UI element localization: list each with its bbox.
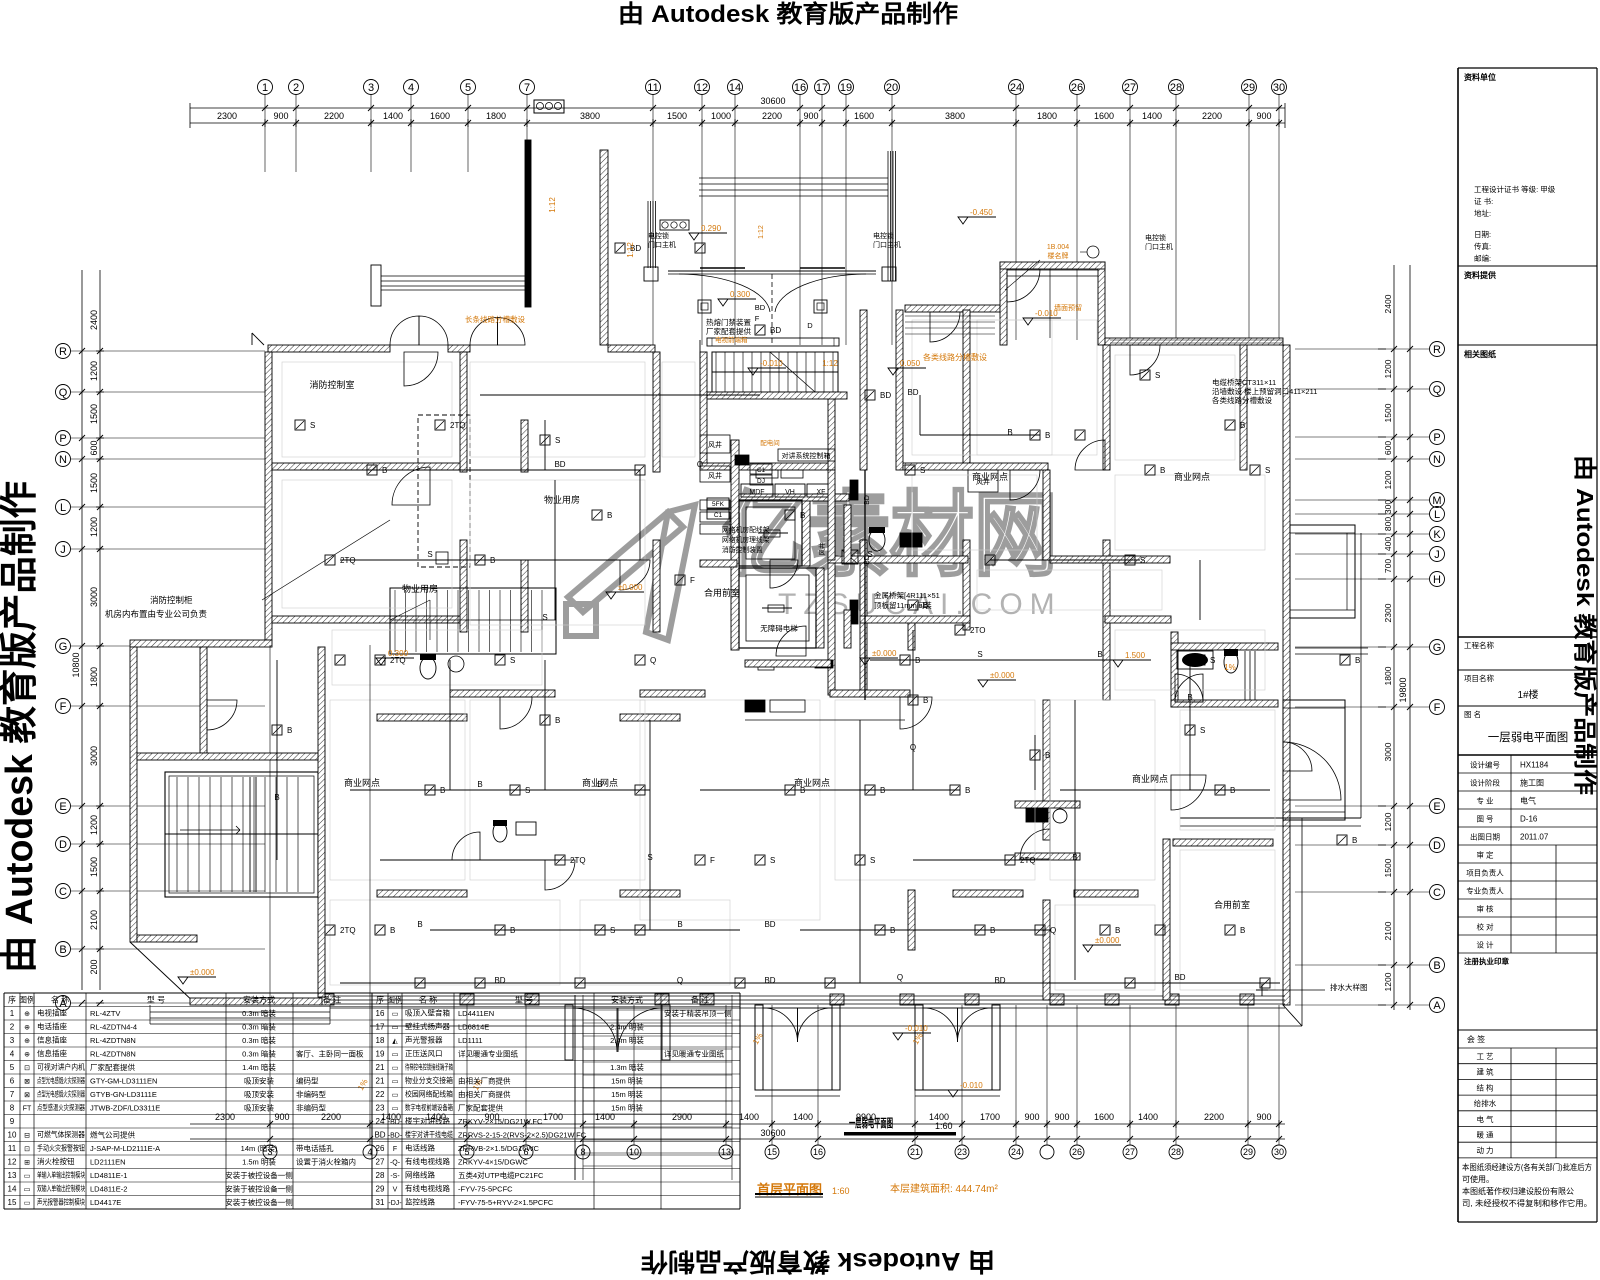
svg-text:设计阶段: 设计阶段 [1470, 778, 1500, 788]
svg-text:动 力: 动 力 [1476, 1145, 1493, 1155]
svg-text:0.300: 0.300 [730, 290, 751, 299]
svg-text:由 Autodesk 教育版产品制作: 由 Autodesk 教育版产品制作 [0, 481, 41, 973]
svg-text:审 定: 审 定 [1476, 850, 1494, 860]
svg-text:型 号: 型 号 [147, 996, 165, 1005]
svg-text:F: F [710, 856, 715, 865]
svg-text:LD1111: LD1111 [458, 1036, 483, 1045]
svg-text:13: 13 [721, 1147, 731, 1157]
svg-text:可使用。: 可使用。 [1462, 1174, 1494, 1184]
svg-text:注册执业印章: 注册执业印章 [1464, 956, 1509, 966]
svg-text:B: B [1352, 836, 1357, 845]
svg-text:商业网点: 商业网点 [972, 471, 1008, 482]
svg-text:吸顶安装: 吸顶安装 [244, 1103, 274, 1113]
svg-text:有线电视线路: 有线电视线路 [405, 1156, 450, 1166]
svg-text:J: J [60, 544, 66, 556]
svg-text:电控锁: 电控锁 [648, 231, 669, 240]
svg-text:F: F [1434, 702, 1441, 714]
svg-text:G: G [59, 641, 68, 653]
svg-text:电 气: 电 气 [1476, 1114, 1494, 1124]
svg-text:9: 9 [10, 1117, 15, 1126]
svg-text:1600: 1600 [430, 111, 450, 121]
svg-text:网络线路: 网络线路 [405, 1170, 435, 1180]
svg-text:H: H [1433, 574, 1441, 586]
svg-text:1800: 1800 [486, 111, 506, 121]
svg-text:30600: 30600 [760, 96, 785, 106]
svg-text:5FK: 5FK [712, 501, 725, 508]
svg-text:专 业: 专 业 [1476, 796, 1494, 806]
svg-text:本图纸著作权归建设股份有限公: 本图纸著作权归建设股份有限公 [1462, 1186, 1574, 1196]
svg-text:3: 3 [10, 1036, 15, 1045]
svg-text:1200: 1200 [1383, 812, 1393, 831]
svg-text:B: B [287, 726, 292, 735]
svg-text:21: 21 [910, 1147, 920, 1157]
svg-text:4: 4 [408, 82, 414, 94]
svg-text:B: B [607, 511, 612, 520]
svg-text:2: 2 [293, 82, 299, 94]
svg-text:±0.000: ±0.000 [618, 583, 643, 592]
svg-text:1400: 1400 [739, 1112, 759, 1122]
svg-text:B: B [390, 926, 395, 935]
svg-text:2200: 2200 [762, 111, 782, 121]
svg-text:排水大样图: 排水大样图 [1330, 982, 1368, 992]
svg-text:消防控制柜: 消防控制柜 [150, 595, 193, 605]
svg-text:⊕: ⊕ [24, 1025, 30, 1032]
svg-text:S: S [867, 550, 872, 559]
svg-text:点型光电感烟火灾探测器: 点型光电感烟火灾探测器 [37, 1089, 85, 1099]
svg-text:BD: BD [994, 976, 1005, 985]
svg-text:▭: ▭ [392, 1106, 399, 1113]
svg-text:J-SAP-M-LD2111E-A: J-SAP-M-LD2111E-A [90, 1144, 160, 1153]
svg-text:图例: 图例 [19, 995, 35, 1005]
svg-text:电控锁: 电控锁 [873, 231, 894, 240]
svg-text:0.3m 暗装: 0.3m 暗装 [242, 1008, 276, 1018]
svg-text:B: B [1045, 431, 1050, 440]
svg-text:20: 20 [886, 82, 898, 94]
svg-text:网络机房理线架: 网络机房理线架 [722, 535, 770, 544]
svg-text:▭: ▭ [392, 1065, 399, 1072]
svg-text:-BD-: -BD- [388, 1119, 403, 1126]
svg-text:商业网点: 商业网点 [794, 777, 830, 788]
svg-text:2TO: 2TO [970, 626, 985, 635]
svg-text:B: B [274, 793, 279, 802]
svg-text:详见暖通专业图纸: 详见暖通专业图纸 [458, 1049, 518, 1059]
svg-text:物业用房: 物业用房 [402, 583, 438, 594]
svg-text:0.3m 暗装: 0.3m 暗装 [242, 1035, 276, 1045]
svg-text:22: 22 [376, 1090, 385, 1099]
svg-text:900: 900 [273, 111, 288, 121]
svg-text:28: 28 [1171, 1147, 1181, 1157]
svg-text:K: K [1433, 529, 1441, 541]
svg-text:LD2111EN: LD2111EN [90, 1158, 126, 1167]
svg-text:12: 12 [696, 82, 708, 94]
svg-text:28: 28 [376, 1171, 385, 1180]
svg-text:无障碍电梯: 无障碍电梯 [760, 623, 798, 633]
svg-text:-0.010: -0.010 [960, 1081, 983, 1090]
svg-text:2TQ: 2TQ [450, 421, 466, 430]
svg-text:专业负责人: 专业负责人 [1466, 886, 1504, 896]
svg-text:1%: 1% [356, 1077, 370, 1092]
svg-text:-BD-: -BD- [388, 1133, 403, 1140]
svg-text:A: A [1433, 1000, 1441, 1012]
svg-text:7: 7 [524, 82, 530, 94]
svg-text:消防控制室: 消防控制室 [309, 379, 354, 390]
svg-text:信息插座: 信息插座 [37, 1048, 67, 1058]
svg-text:2TQ: 2TQ [1020, 856, 1036, 865]
svg-text:17: 17 [816, 82, 828, 94]
svg-text:2200: 2200 [1202, 111, 1222, 121]
svg-text:由 Autodesk 教育版产品制作: 由 Autodesk 教育版产品制作 [618, 0, 958, 28]
svg-text:2100: 2100 [1383, 921, 1393, 940]
svg-text:15m 明装: 15m 明装 [611, 1103, 643, 1113]
svg-text:3000: 3000 [89, 587, 99, 607]
svg-text:工程设计证书 等级: 甲级: 工程设计证书 等级: 甲级 [1474, 184, 1556, 194]
svg-text:▭: ▭ [24, 1200, 31, 1207]
svg-text:G: G [1433, 642, 1442, 654]
svg-text:11: 11 [647, 82, 658, 94]
svg-text:地址:: 地址: [1474, 208, 1491, 218]
svg-text:LD4811E-2: LD4811E-2 [90, 1185, 127, 1194]
svg-text:2TQ: 2TQ [340, 926, 356, 935]
svg-text:BD: BD [764, 976, 775, 985]
svg-text:-Q-: -Q- [390, 1160, 401, 1167]
svg-text:28: 28 [1170, 82, 1182, 94]
svg-text:证 书:: 证 书: [1474, 196, 1493, 206]
svg-text:1200: 1200 [1383, 470, 1393, 489]
svg-text:XF: XF [817, 489, 826, 496]
svg-text:C1: C1 [714, 512, 723, 519]
svg-text:L: L [60, 502, 66, 514]
svg-text:14m (暗装): 14m (暗装) [241, 1143, 278, 1153]
svg-text:5: 5 [10, 1063, 15, 1072]
svg-text:S: S [1200, 726, 1205, 735]
svg-text:D-16: D-16 [1520, 815, 1538, 824]
svg-text:B: B [1433, 960, 1440, 972]
svg-text:D: D [807, 321, 813, 330]
svg-text:安装于被控设备一侧: 安装于被控设备一侧 [225, 1184, 293, 1194]
svg-text:各类线路分槽敷设: 各类线路分槽敷设 [1212, 395, 1272, 405]
svg-text:S: S [427, 550, 432, 559]
svg-text:燃气公司提供: 燃气公司提供 [90, 1130, 135, 1140]
svg-text:1.5m 明装: 1.5m 明装 [242, 1157, 276, 1167]
svg-text:1400: 1400 [793, 1112, 813, 1122]
svg-text:6: 6 [10, 1077, 15, 1086]
svg-text:由 Autodesk 教育版产品制作: 由 Autodesk 教育版产品制作 [1572, 455, 1598, 795]
svg-text:F: F [755, 314, 760, 323]
svg-text:风井: 风井 [708, 471, 722, 480]
svg-text:壁挂式扬声器: 壁挂式扬声器 [405, 1021, 450, 1031]
svg-text:13: 13 [8, 1171, 17, 1180]
svg-text:1500: 1500 [1383, 403, 1393, 422]
svg-text:LD4411EN: LD4411EN [458, 1009, 494, 1018]
svg-text:3: 3 [368, 82, 374, 94]
svg-text:19: 19 [840, 82, 852, 94]
svg-text:本层建筑面积: 444.74m²: 本层建筑面积: 444.74m² [890, 1182, 998, 1195]
svg-text:L: L [1434, 509, 1440, 521]
svg-text:2300: 2300 [217, 111, 237, 121]
svg-text:V: V [393, 1187, 398, 1194]
svg-text:楼宇对讲线路: 楼宇对讲线路 [405, 1116, 450, 1126]
svg-text:RL-4ZDTN8N: RL-4ZDTN8N [90, 1050, 136, 1059]
svg-text:900: 900 [1054, 1112, 1069, 1122]
svg-text:P: P [1433, 432, 1440, 444]
svg-text:正压送风口: 正压送风口 [405, 1048, 443, 1058]
svg-text:编码型: 编码型 [296, 1076, 319, 1086]
svg-text:电视插座: 电视插座 [37, 1008, 67, 1018]
svg-text:900: 900 [1256, 1112, 1271, 1122]
svg-text:⊞: ⊞ [24, 1160, 30, 1167]
svg-text:B: B [677, 920, 682, 929]
svg-text:±0.000: ±0.000 [872, 649, 897, 658]
svg-text:19800: 19800 [1398, 677, 1408, 702]
svg-text:BD: BD [494, 976, 505, 985]
svg-text:电控锁: 电控锁 [1145, 233, 1166, 242]
svg-text:非编码型: 非编码型 [296, 1089, 326, 1099]
svg-text:2011.07: 2011.07 [1520, 833, 1549, 842]
svg-text:0.3m 暗装: 0.3m 暗装 [242, 1049, 276, 1059]
svg-text:15: 15 [8, 1198, 17, 1207]
svg-text:电缆桥架CT311×11: 电缆桥架CT311×11 [1212, 377, 1276, 387]
svg-text:S: S [1140, 556, 1145, 565]
svg-text:有线电视线路: 有线电视线路 [405, 1183, 450, 1193]
svg-text:2400: 2400 [1383, 294, 1393, 313]
svg-text:-FYV-75-5PCFC: -FYV-75-5PCFC [458, 1185, 513, 1194]
svg-text:2: 2 [10, 1023, 15, 1032]
svg-text:1800: 1800 [1037, 111, 1057, 121]
svg-text:1%: 1% [1224, 663, 1236, 672]
svg-text:R: R [1433, 344, 1441, 356]
svg-text:B: B [965, 786, 970, 795]
svg-text:信息插座: 信息插座 [37, 1035, 67, 1045]
svg-text:1:12: 1:12 [548, 197, 557, 213]
svg-text:1:60: 1:60 [935, 1121, 953, 1131]
svg-text:1400: 1400 [383, 111, 403, 121]
svg-text:21: 21 [376, 1063, 385, 1072]
svg-text:ZRRVS-2-15-2(RVS-2×2.5)DG21W.F: ZRRVS-2-15-2(RVS-2×2.5)DG21W.FC [458, 1131, 587, 1140]
svg-text:S: S [1155, 371, 1160, 380]
svg-text:设计编号: 设计编号 [1470, 760, 1500, 770]
svg-text:21: 21 [376, 1077, 385, 1086]
svg-text:1.500: 1.500 [1125, 651, 1146, 660]
svg-text:BD: BD [770, 326, 781, 335]
svg-text:BD: BD [907, 388, 918, 397]
svg-text:待梯控电控锁接线端子箱: 待梯控电控锁接线端子箱 [405, 1062, 453, 1072]
svg-text:B: B [1115, 926, 1120, 935]
svg-text:B: B [490, 556, 495, 565]
svg-text:1:12: 1:12 [626, 242, 635, 258]
svg-text:0.3m 暗装: 0.3m 暗装 [242, 1022, 276, 1032]
svg-text:沿墙敷设 楼上预留洞口411×211: 沿墙敷设 楼上预留洞口411×211 [1212, 386, 1317, 396]
svg-text:Q: Q [910, 743, 916, 752]
svg-text:暖 通: 暖 通 [1476, 1130, 1494, 1140]
svg-text:600: 600 [1383, 441, 1393, 455]
svg-text:2200: 2200 [321, 1112, 341, 1122]
svg-text:RL-4ZTV: RL-4ZTV [90, 1009, 120, 1018]
svg-text:29: 29 [1243, 82, 1255, 94]
svg-text:非编码型: 非编码型 [296, 1103, 326, 1113]
svg-text:700: 700 [1383, 559, 1393, 573]
svg-text:3800: 3800 [945, 111, 965, 121]
svg-text:点型感温火灾探测器: 点型感温火灾探测器 [37, 1102, 85, 1112]
svg-text:物业分支交接箱: 物业分支交接箱 [405, 1075, 453, 1085]
svg-text:合用前室: 合用前室 [704, 587, 740, 598]
svg-text:厂家配套提供: 厂家配套提供 [706, 326, 751, 336]
svg-text:◭: ◭ [392, 1038, 398, 1045]
svg-text:声光警报器: 声光警报器 [405, 1035, 443, 1045]
svg-text:声光报警器控制模块: 声光报警器控制模块 [37, 1197, 85, 1207]
svg-text:顶板留11mm间装: 顶板留11mm间装 [874, 600, 932, 610]
svg-text:网络机房配线架: 网络机房配线架 [722, 525, 770, 534]
svg-text:GTY-GM-LD3111EN: GTY-GM-LD3111EN [90, 1077, 157, 1086]
svg-text:监控线路: 监控线路 [405, 1197, 435, 1207]
svg-text:1200: 1200 [89, 361, 99, 381]
svg-text:⊕: ⊕ [24, 1038, 30, 1045]
svg-text:3800: 3800 [580, 111, 600, 121]
svg-text:S: S [770, 856, 775, 865]
svg-text:R: R [59, 346, 67, 358]
svg-text:热熔门禁装置: 热熔门禁装置 [706, 317, 751, 327]
svg-text:D: D [59, 839, 67, 851]
svg-text:ZRKYV-2×15/DG21W.FC: ZRKYV-2×15/DG21W.FC [458, 1117, 543, 1126]
svg-text:1200: 1200 [1383, 972, 1393, 991]
svg-text:24: 24 [376, 1117, 385, 1126]
svg-text:客厅、主卧同一面板: 客厅、主卧同一面板 [296, 1049, 364, 1059]
svg-text:2200: 2200 [1204, 1112, 1224, 1122]
svg-text:厂家配套提供: 厂家配套提供 [90, 1062, 135, 1072]
svg-text:1500: 1500 [89, 473, 99, 493]
svg-text:10: 10 [8, 1131, 17, 1140]
svg-text:3000: 3000 [1383, 742, 1393, 761]
svg-text:±0.000: ±0.000 [990, 671, 1015, 680]
svg-text:S: S [310, 421, 315, 430]
svg-text:墙面预留: 墙面预留 [1054, 303, 1082, 312]
svg-text:19: 19 [376, 1050, 385, 1059]
svg-text:4: 4 [10, 1050, 15, 1059]
svg-text:物业用房: 物业用房 [544, 494, 580, 505]
svg-text:C1: C1 [757, 467, 766, 474]
svg-text:电视前端箱: 电视前端箱 [715, 335, 748, 344]
svg-text:N: N [59, 454, 67, 466]
svg-text:1200: 1200 [89, 517, 99, 537]
svg-text:S: S [510, 656, 515, 665]
svg-text:长条线路分槽敷设: 长条线路分槽敷设 [465, 314, 525, 324]
svg-text:B: B [880, 786, 885, 795]
svg-text:10: 10 [629, 1147, 639, 1157]
svg-text:安装于精装吊顶一侧: 安装于精装吊顶一侧 [664, 1008, 732, 1018]
svg-text:1800: 1800 [1383, 666, 1393, 685]
svg-text:1500: 1500 [89, 404, 99, 424]
svg-text:J: J [1434, 549, 1440, 561]
svg-text:吸顶安装: 吸顶安装 [244, 1076, 274, 1086]
svg-text:金属桥架[4R111×51: 金属桥架[4R111×51 [874, 590, 940, 600]
svg-text:26: 26 [1071, 82, 1083, 94]
svg-text:图 号: 图 号 [1476, 815, 1493, 824]
svg-text:1.3m 暗装: 1.3m 暗装 [610, 1062, 644, 1072]
svg-text:1600: 1600 [1094, 1112, 1114, 1122]
svg-text:2100: 2100 [89, 910, 99, 930]
svg-text:资料提供: 资料提供 [1464, 270, 1496, 280]
svg-text:16: 16 [813, 1147, 823, 1157]
svg-text:门口主机: 门口主机 [873, 240, 901, 249]
svg-text:-0.450: -0.450 [970, 208, 993, 217]
svg-text:F: F [690, 576, 695, 585]
svg-text:B: B [1045, 751, 1050, 760]
svg-text:-DJ-: -DJ- [388, 1200, 402, 1207]
svg-text:LD4417E: LD4417E [90, 1198, 121, 1207]
svg-text:本图纸须经建设方(各有关部门)批准后方: 本图纸须经建设方(各有关部门)批准后方 [1462, 1162, 1592, 1172]
svg-text:商业网点: 商业网点 [1174, 471, 1210, 482]
svg-text:型 号: 型 号 [515, 996, 533, 1005]
svg-text:P: P [59, 433, 66, 445]
svg-text:0.050: 0.050 [900, 359, 921, 368]
svg-text:30600: 30600 [760, 1128, 785, 1138]
svg-text:2200: 2200 [324, 111, 344, 121]
svg-text:300: 300 [1383, 500, 1393, 514]
svg-text:五类4对UTP电缆PC21FC: 五类4对UTP电缆PC21FC [458, 1170, 544, 1180]
svg-text:200: 200 [89, 959, 99, 974]
svg-text:安装方式: 安装方式 [243, 995, 275, 1005]
svg-text:B: B [1187, 693, 1192, 702]
svg-text:B: B [890, 926, 895, 935]
svg-text:邮编:: 邮编: [1474, 253, 1491, 263]
svg-text:1.4m 暗装: 1.4m 暗装 [242, 1062, 276, 1072]
svg-text:24: 24 [1011, 1147, 1021, 1157]
svg-text:1400: 1400 [1142, 111, 1162, 121]
svg-text:-0.010: -0.010 [760, 359, 783, 368]
svg-text:N: N [1433, 454, 1441, 466]
svg-text:校园网络配线箱: 校园网络配线箱 [405, 1089, 453, 1099]
svg-text:图 名: 图 名 [1464, 709, 1481, 719]
svg-text:安装于被控设备一侧: 安装于被控设备一侧 [225, 1170, 293, 1180]
svg-text:B: B [1240, 926, 1245, 935]
svg-text:B: B [59, 944, 66, 956]
svg-text:26: 26 [376, 1144, 385, 1153]
svg-text:7: 7 [10, 1090, 15, 1099]
svg-text:HX1184: HX1184 [1520, 761, 1549, 770]
svg-text:2.4m 明装: 2.4m 明装 [610, 1035, 644, 1045]
svg-text:MDF: MDF [749, 489, 764, 496]
svg-text:▭: ▭ [392, 1052, 399, 1059]
svg-text:校 对: 校 对 [1476, 922, 1494, 932]
svg-text:1700: 1700 [543, 1112, 563, 1122]
svg-text:传真:: 传真: [1474, 241, 1491, 251]
svg-text:10800: 10800 [71, 652, 81, 677]
svg-text:安装方式: 安装方式 [611, 995, 643, 1005]
svg-text:司, 未经授权不得复制和移作它用。: 司, 未经授权不得复制和移作它用。 [1462, 1198, 1592, 1208]
svg-text:1600: 1600 [1094, 111, 1114, 121]
svg-text:S: S [977, 650, 982, 659]
svg-text:安装于被控设备一侧: 安装于被控设备一侧 [225, 1197, 293, 1207]
svg-text:F: F [393, 1146, 397, 1153]
svg-text:1800: 1800 [89, 667, 99, 687]
svg-text:⊡: ⊡ [24, 1146, 30, 1153]
svg-text:结 构: 结 构 [1476, 1082, 1494, 1092]
svg-text:▭: ▭ [392, 1092, 399, 1099]
svg-text:⊡: ⊡ [24, 1065, 30, 1072]
svg-text:600: 600 [89, 440, 99, 455]
svg-text:BD: BD [1174, 973, 1185, 982]
svg-text:14: 14 [8, 1185, 17, 1194]
svg-text:8: 8 [10, 1104, 15, 1113]
svg-text:2900: 2900 [672, 1112, 692, 1122]
svg-text:门口主机: 门口主机 [1145, 242, 1173, 251]
svg-text:±0.000: ±0.000 [190, 968, 215, 977]
svg-text:2300: 2300 [1383, 603, 1393, 622]
svg-text:RL-4ZDTN8N: RL-4ZDTN8N [90, 1036, 136, 1045]
svg-text:双输入单输出控制模块: 双输入单输出控制模块 [37, 1183, 85, 1193]
svg-text:由相关厂商提供: 由相关厂商提供 [458, 1076, 511, 1086]
svg-text:Q: Q [697, 460, 703, 469]
svg-text:带电话插孔: 带电话插孔 [296, 1143, 334, 1153]
